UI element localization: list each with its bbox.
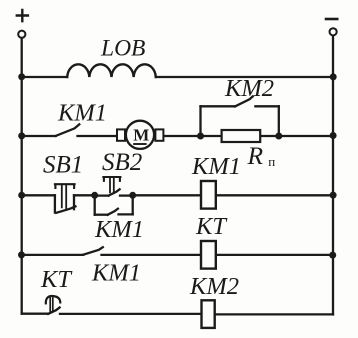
coil KM1 bbox=[201, 181, 216, 209]
pushbutton SB2 plunger bbox=[103, 177, 120, 193]
svg-text:LOB: LOB bbox=[100, 36, 145, 62]
row3 wire to coil bbox=[133, 194, 200, 196]
node row4 left bbox=[18, 251, 25, 258]
node row3 right bbox=[330, 192, 337, 199]
KM2 bypass top wire right bbox=[255, 105, 278, 107]
node row2 resistor left bbox=[197, 133, 204, 140]
pushbutton SB1 right terminal bbox=[73, 195, 75, 209]
node row4 right bbox=[329, 252, 336, 259]
svg-text:KM1: KM1 bbox=[191, 153, 241, 180]
svg-text:SB1: SB1 bbox=[43, 152, 83, 179]
contact KM2 blade bbox=[235, 96, 253, 106]
row3 wire coil to rail bbox=[217, 194, 333, 196]
node row3 SB2 left bbox=[91, 192, 98, 199]
coil KT bbox=[201, 241, 216, 269]
right terminal circle bbox=[330, 28, 337, 35]
node row3 left bbox=[18, 192, 25, 199]
row4 wire coil to rail bbox=[217, 254, 333, 256]
node row2 right bbox=[330, 132, 337, 139]
KM1 latch branch left drop bbox=[94, 195, 96, 214]
row4 wire to coil bbox=[102, 254, 201, 256]
svg-text:KM2: KM2 bbox=[224, 75, 274, 102]
motor M circle bbox=[126, 121, 154, 149]
row5 wire from rail corner bbox=[22, 313, 49, 315]
row3 wire SB2 to node bbox=[120, 194, 133, 196]
row3 wire node to SB2 bbox=[95, 194, 109, 196]
motor right brush bbox=[155, 129, 163, 140]
contact KM1 row4 blade bbox=[83, 247, 103, 255]
contact KT blade bbox=[48, 308, 59, 314]
contact KM1 latch blade bbox=[108, 209, 118, 215]
KT time-delay rod bbox=[50, 298, 53, 312]
svg-text:R: R bbox=[247, 141, 264, 170]
row5 wire coil to rail bbox=[217, 313, 334, 315]
KM1 latch branch bottom right wire bbox=[119, 213, 133, 215]
row4 wire from rail bbox=[22, 254, 84, 256]
KM2 bypass right riser bbox=[278, 106, 280, 136]
KM2 bypass left riser bbox=[199, 106, 201, 136]
node row1 left bbox=[18, 73, 25, 80]
KM2 bypass top wire left bbox=[201, 105, 236, 107]
row1 wire right bbox=[156, 76, 333, 78]
row3 wire from rail bbox=[22, 194, 55, 196]
pushbutton SB2 blade bbox=[109, 189, 120, 195]
node row2 resistor right bbox=[275, 133, 282, 140]
motor left brush bbox=[117, 129, 125, 140]
svg-text:п: п bbox=[268, 154, 275, 169]
svg-text:KM1: KM1 bbox=[57, 100, 107, 127]
contact KM1 row2 blade bbox=[56, 124, 80, 135]
left terminal circle bbox=[18, 31, 25, 38]
svg-text:SB2: SB2 bbox=[102, 149, 142, 176]
svg-text:KT: KT bbox=[195, 213, 228, 240]
coil KM2 bbox=[202, 300, 215, 328]
row2 wire resistor to rail bbox=[261, 135, 333, 137]
svg-text:KM1: KM1 bbox=[94, 216, 144, 243]
row2 wire from rail bbox=[22, 135, 56, 137]
KM1 latch branch right drop bbox=[132, 195, 134, 214]
KM1 latch branch bottom left wire bbox=[95, 214, 108, 216]
row2 wire motor to node bbox=[164, 135, 220, 137]
minus terminal symbol bbox=[326, 18, 337, 21]
node row2 left bbox=[18, 132, 25, 139]
svg-text:KM1: KM1 bbox=[91, 260, 141, 287]
row1 wire left bbox=[22, 76, 67, 78]
pushbutton SB1 blade bbox=[56, 206, 75, 212]
right rail wire bbox=[332, 36, 334, 314]
motor letter underline bbox=[133, 143, 146, 145]
row3 wire SB1 to node bbox=[74, 194, 95, 196]
row2 wire to motor bbox=[78, 135, 117, 137]
resistor Rp bbox=[222, 130, 261, 142]
svg-text:M: M bbox=[133, 126, 149, 145]
node row1 right bbox=[330, 73, 337, 80]
svg-text:KT: KT bbox=[40, 266, 73, 293]
KT time-delay arc bbox=[46, 296, 61, 303]
inductor LOB bbox=[67, 64, 156, 77]
left rail wire bbox=[21, 39, 23, 314]
pushbutton SB1 plunger bbox=[55, 184, 75, 208]
svg-text:KM2: KM2 bbox=[189, 273, 239, 300]
node row3 SB2 right bbox=[129, 192, 136, 199]
plus terminal symbol bbox=[17, 10, 28, 21]
pushbutton SB1 left terminal bbox=[54, 195, 56, 212]
row5 wire contact to coil bbox=[60, 313, 200, 315]
